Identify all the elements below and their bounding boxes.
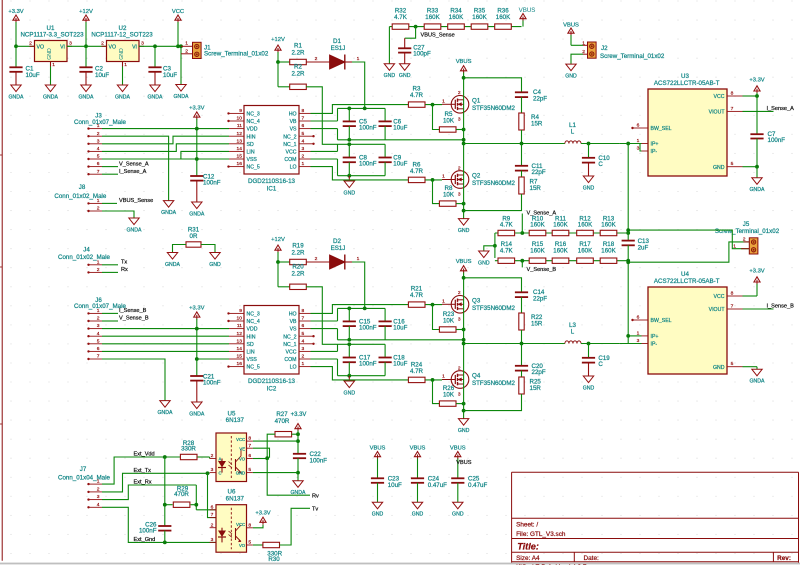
svg-text:VO: VO	[239, 456, 246, 461]
svg-text:GNDA: GNDA	[750, 187, 766, 193]
svg-text:IP+: IP+	[651, 334, 659, 340]
svg-text:GNDA: GNDA	[174, 94, 190, 100]
svg-text:Sheet: /: Sheet: /	[516, 522, 538, 529]
svg-text:160K: 160K	[449, 14, 464, 21]
svg-text:Ext_Rx: Ext_Rx	[134, 480, 152, 486]
svg-text:NC_4: NC_4	[247, 319, 260, 325]
svg-text:2: 2	[458, 290, 461, 296]
svg-text:GND: GND	[372, 512, 384, 518]
svg-text:NC_1: NC_1	[283, 142, 296, 148]
svg-text:DGD2110S16-13: DGD2110S16-13	[248, 178, 296, 185]
svg-text:HO: HO	[289, 112, 297, 118]
svg-text:GND: GND	[478, 260, 490, 266]
svg-text:Screw_Terminal_01x02: Screw_Terminal_01x02	[715, 228, 780, 235]
svg-text:NCP1117-12_SOT223: NCP1117-12_SOT223	[91, 32, 153, 39]
svg-text:V_Sense_A: V_Sense_A	[119, 161, 149, 167]
svg-text:1: 1	[302, 161, 305, 167]
svg-text:VBUS_Sense: VBUS_Sense	[421, 32, 455, 38]
svg-text:GNDA: GNDA	[127, 227, 143, 233]
svg-text:3: 3	[302, 346, 305, 352]
svg-text:9: 9	[239, 308, 242, 314]
svg-text:Ext_Tx: Ext_Tx	[134, 468, 152, 474]
svg-text:Screw_Terminal_01x02: Screw_Terminal_01x02	[204, 51, 269, 58]
svg-text:VE: VE	[239, 446, 245, 451]
svg-text:Rev:: Rev:	[777, 555, 791, 562]
svg-text:2: 2	[302, 154, 305, 160]
svg-text:12: 12	[237, 331, 243, 337]
svg-text:VCC: VCC	[172, 9, 184, 15]
svg-text:File: GTL_V3.sch: File: GTL_V3.sch	[516, 531, 566, 538]
svg-text:4.7R: 4.7R	[410, 168, 424, 175]
svg-text:7: 7	[731, 304, 734, 310]
svg-text:1: 1	[97, 259, 100, 265]
svg-text:6: 6	[211, 504, 214, 510]
svg-text:100pF: 100pF	[413, 50, 431, 57]
svg-text:160K: 160K	[578, 222, 593, 229]
svg-text:100nF: 100nF	[359, 361, 377, 368]
svg-text:GNDA: GNDA	[43, 94, 59, 100]
svg-text:4: 4	[97, 146, 100, 152]
svg-text:4.7K: 4.7K	[500, 222, 514, 229]
svg-text:15R: 15R	[530, 385, 542, 392]
svg-text:10uF: 10uF	[393, 125, 407, 132]
svg-text:5: 5	[302, 131, 305, 137]
svg-text:U6: U6	[228, 489, 236, 496]
svg-text:15R: 15R	[531, 120, 543, 127]
svg-text:LIN: LIN	[247, 150, 255, 156]
svg-text:2: 2	[315, 56, 318, 62]
svg-text:+12V: +12V	[271, 37, 285, 43]
svg-text:VIOUT: VIOUT	[709, 110, 726, 116]
svg-text:2: 2	[458, 165, 461, 171]
svg-text:VCC: VCC	[236, 522, 245, 527]
svg-text:LO: LO	[290, 165, 297, 171]
svg-text:14: 14	[237, 346, 243, 352]
svg-text:100nF: 100nF	[310, 458, 328, 465]
svg-text:VSS: VSS	[247, 157, 258, 163]
svg-text:10: 10	[237, 316, 243, 322]
svg-text:Size: A4: Size: A4	[516, 555, 540, 562]
svg-text:2: 2	[458, 90, 461, 96]
svg-text:3: 3	[211, 537, 214, 543]
svg-text:10K: 10K	[443, 118, 455, 125]
svg-text:4: 4	[97, 502, 100, 508]
svg-text:NC_5: NC_5	[247, 365, 260, 371]
svg-text:J5: J5	[743, 221, 750, 228]
svg-text:GND: GND	[412, 512, 424, 518]
svg-text:9: 9	[239, 108, 242, 114]
svg-text:VCC: VCC	[714, 294, 725, 300]
svg-text:330R: 330R	[181, 446, 196, 453]
svg-text:10K: 10K	[443, 192, 455, 199]
svg-text:1: 1	[97, 198, 100, 204]
svg-text:IP-: IP-	[651, 342, 658, 348]
svg-text:22pF: 22pF	[533, 296, 547, 303]
svg-text:I_Sense_B: I_Sense_B	[767, 304, 795, 310]
svg-text:VBUS: VBUS	[456, 259, 472, 265]
svg-text:160K: 160K	[578, 247, 593, 254]
svg-text:Title:: Title:	[517, 541, 539, 551]
svg-text:2: 2	[458, 365, 461, 371]
svg-text:GNDA: GNDA	[115, 94, 131, 100]
svg-text:NC_3: NC_3	[247, 312, 260, 318]
svg-text:NC_2: NC_2	[283, 134, 296, 140]
svg-text:VBUS: VBUS	[370, 445, 386, 451]
svg-text:470R: 470R	[275, 418, 290, 425]
svg-text:0.47uF: 0.47uF	[428, 482, 447, 489]
svg-text:+12V: +12V	[271, 237, 285, 243]
svg-text:2: 2	[97, 206, 100, 212]
svg-text:IC1: IC1	[267, 186, 277, 193]
svg-text:2: 2	[185, 48, 188, 54]
svg-text:3: 3	[458, 392, 461, 398]
svg-text:1: 1	[97, 479, 100, 485]
svg-text:5: 5	[248, 540, 251, 546]
svg-text:R20: R20	[292, 263, 304, 270]
svg-text:15: 15	[237, 154, 243, 160]
svg-text:1: 1	[185, 41, 188, 47]
svg-text:COM: COM	[284, 357, 296, 363]
svg-text:GND: GND	[119, 48, 125, 60]
svg-text:VBUS: VBUS	[410, 445, 426, 451]
svg-text:Ext_Vdd: Ext_Vdd	[134, 452, 155, 458]
svg-text:10uF: 10uF	[26, 72, 40, 79]
svg-text:SD: SD	[247, 342, 254, 348]
svg-text:GND: GND	[713, 365, 725, 371]
svg-text:VI: VI	[60, 45, 65, 51]
svg-text:GND: GND	[452, 512, 464, 518]
svg-text:GNDA: GNDA	[161, 210, 177, 216]
svg-text:VB: VB	[290, 119, 297, 125]
svg-text:1: 1	[97, 308, 100, 314]
svg-text:SD: SD	[247, 142, 254, 148]
svg-text:16: 16	[237, 361, 243, 367]
svg-text:1: 1	[52, 62, 55, 68]
svg-text:4.7K: 4.7K	[500, 247, 514, 254]
svg-text:GND: GND	[209, 262, 221, 268]
svg-text:IP+: IP+	[651, 142, 659, 148]
svg-text:14: 14	[237, 146, 243, 152]
svg-text:2.2R: 2.2R	[291, 271, 305, 278]
svg-text:GND: GND	[713, 165, 725, 171]
svg-text:J8: J8	[79, 184, 86, 191]
svg-text:6: 6	[302, 323, 305, 329]
svg-text:5: 5	[302, 331, 305, 337]
svg-text:+3.3V: +3.3V	[189, 105, 204, 111]
svg-text:6N137: 6N137	[226, 496, 245, 503]
svg-text:8: 8	[302, 308, 305, 314]
svg-text:1: 1	[357, 256, 360, 262]
svg-text:0R: 0R	[190, 233, 198, 240]
svg-text:ES1J: ES1J	[331, 45, 346, 52]
svg-text:Conn_01x02_Male: Conn_01x02_Male	[58, 254, 111, 261]
svg-text:GND: GND	[583, 185, 595, 191]
svg-text:V_Sense_A: V_Sense_A	[527, 211, 557, 217]
svg-text:GNDA: GNDA	[750, 379, 766, 385]
svg-text:NCP1117-3.3_SOT223: NCP1117-3.3_SOT223	[20, 32, 84, 39]
svg-text:11: 11	[237, 323, 242, 329]
svg-text:160K: 160K	[553, 247, 568, 254]
svg-text:+3.3V: +3.3V	[8, 9, 23, 15]
svg-text:7: 7	[97, 169, 100, 175]
svg-text:Tx: Tx	[121, 260, 127, 266]
svg-text:C: C	[598, 161, 603, 168]
svg-text:R30: R30	[268, 556, 280, 563]
svg-text:1: 1	[442, 174, 445, 180]
svg-text:GND: GND	[344, 190, 356, 196]
svg-text:160K: 160K	[601, 222, 616, 229]
svg-text:+12V: +12V	[79, 9, 93, 15]
svg-text:100nF: 100nF	[768, 137, 786, 144]
svg-text:1: 1	[302, 361, 305, 367]
svg-text:1: 1	[97, 123, 100, 129]
svg-text:IC2: IC2	[267, 386, 277, 393]
svg-text:10uF: 10uF	[388, 482, 402, 489]
svg-text:11: 11	[237, 123, 242, 129]
svg-text:3: 3	[458, 316, 461, 322]
svg-text:6: 6	[97, 161, 100, 167]
svg-text:V_Sense_B: V_Sense_B	[119, 316, 149, 322]
svg-text:22pF: 22pF	[532, 169, 546, 176]
svg-text:VBUS: VBUS	[450, 445, 466, 451]
svg-text:A: A	[219, 457, 222, 462]
svg-text:1: 1	[733, 244, 736, 250]
svg-text:IP-: IP-	[651, 149, 658, 155]
svg-text:2uF: 2uF	[638, 245, 649, 252]
svg-text:10uF: 10uF	[95, 72, 109, 79]
svg-text:6N137: 6N137	[226, 417, 245, 424]
svg-text:+3.3V: +3.3V	[189, 305, 204, 311]
svg-text:VB: VB	[290, 319, 297, 325]
svg-text:GND: GND	[583, 385, 595, 391]
svg-text:100nF: 100nF	[359, 125, 377, 132]
svg-text:160K: 160K	[425, 14, 440, 21]
svg-text:NC_5: NC_5	[247, 165, 260, 171]
svg-text:NC_1: NC_1	[283, 342, 296, 348]
svg-text:12: 12	[237, 131, 243, 137]
svg-text:GND: GND	[458, 228, 470, 234]
svg-text:7: 7	[302, 316, 305, 322]
svg-text:3: 3	[97, 138, 100, 144]
svg-text:GND: GND	[565, 74, 577, 80]
svg-text:J4: J4	[83, 247, 90, 254]
svg-text:5: 5	[97, 338, 100, 344]
svg-text:LIN: LIN	[247, 350, 255, 356]
svg-text:15R: 15R	[530, 185, 542, 192]
svg-text:10K: 10K	[443, 318, 455, 325]
svg-text:10K: 10K	[443, 392, 455, 399]
svg-text:VBUS: VBUS	[456, 460, 472, 466]
svg-text:NC_3: NC_3	[247, 112, 260, 118]
svg-text:4.7R: 4.7R	[410, 368, 424, 375]
svg-text:2: 2	[97, 487, 100, 493]
svg-text:Rv: Rv	[312, 493, 319, 499]
svg-text:GNDA: GNDA	[9, 94, 25, 100]
svg-text:HO: HO	[289, 312, 297, 318]
svg-text:I_Sense_A: I_Sense_A	[119, 169, 147, 175]
svg-text:Conn_01x07_Male: Conn_01x07_Male	[74, 119, 127, 126]
svg-text:160K: 160K	[472, 14, 487, 21]
svg-text:1: 1	[124, 62, 127, 68]
svg-text:C: C	[219, 471, 222, 476]
svg-text:VDD: VDD	[247, 327, 258, 333]
svg-text:2: 2	[211, 453, 214, 459]
svg-text:1: 1	[582, 41, 585, 47]
svg-text:L: L	[571, 328, 575, 335]
svg-text:GNDA: GNDA	[158, 410, 174, 416]
svg-text:8: 8	[248, 436, 251, 442]
svg-text:L: L	[571, 128, 575, 135]
svg-text:1: 1	[442, 99, 445, 105]
svg-text:VCC: VCC	[286, 350, 297, 356]
svg-text:1: 1	[442, 374, 445, 380]
svg-text:3: 3	[637, 146, 640, 152]
svg-text:ACS722LLCTR-05AB-T: ACS722LLCTR-05AB-T	[654, 278, 720, 285]
svg-text:15R: 15R	[531, 320, 543, 327]
svg-text:VBUS: VBUS	[456, 59, 472, 65]
svg-text:100nF: 100nF	[359, 161, 377, 168]
svg-text:470R: 470R	[174, 491, 189, 498]
svg-text:22pF: 22pF	[532, 369, 546, 376]
svg-text:2: 2	[97, 316, 100, 322]
svg-text:GND: GND	[458, 428, 470, 434]
svg-text:1: 1	[357, 56, 360, 62]
svg-text:4: 4	[97, 331, 100, 337]
svg-text:5: 5	[97, 154, 100, 160]
svg-text:100nF: 100nF	[359, 325, 377, 332]
svg-text:5: 5	[248, 467, 251, 473]
svg-text:STF35N60DM2: STF35N60DM2	[472, 305, 516, 312]
svg-text:GND: GND	[399, 73, 411, 79]
svg-text:+3.3V: +3.3V	[291, 412, 307, 418]
svg-text:8: 8	[731, 291, 734, 297]
svg-text:J2: J2	[601, 45, 608, 52]
svg-text:Q4: Q4	[472, 373, 481, 380]
svg-text:I_Sense_A: I_Sense_A	[767, 106, 795, 112]
svg-text:10uF: 10uF	[393, 161, 407, 168]
svg-text:Tv: Tv	[312, 507, 318, 513]
svg-text:+3.3V: +3.3V	[255, 510, 270, 516]
svg-text:4.7R: 4.7R	[410, 292, 424, 299]
svg-text:J7: J7	[80, 466, 87, 473]
svg-text:0.47uF: 0.47uF	[468, 482, 487, 489]
svg-text:22pF: 22pF	[533, 96, 547, 103]
svg-text:4: 4	[302, 338, 305, 344]
svg-text:10uF: 10uF	[393, 325, 407, 332]
svg-text:NC_2: NC_2	[283, 334, 296, 340]
svg-text:Conn_01x04_Male: Conn_01x04_Male	[58, 474, 111, 481]
svg-text:R2: R2	[294, 63, 302, 70]
svg-text:BW_SEL: BW_SEL	[651, 318, 672, 324]
svg-text:GNDA: GNDA	[148, 94, 164, 100]
svg-text:6: 6	[302, 123, 305, 129]
svg-text:VIOUT: VIOUT	[709, 307, 726, 313]
svg-text:160K: 160K	[530, 247, 545, 254]
svg-text:2: 2	[211, 522, 214, 528]
svg-text:160K: 160K	[601, 247, 616, 254]
svg-text:GNDA: GNDA	[79, 94, 95, 100]
svg-text:3: 3	[302, 146, 305, 152]
svg-text:LO: LO	[290, 365, 297, 371]
svg-text:3: 3	[211, 467, 214, 473]
svg-text:5: 5	[731, 361, 734, 367]
svg-text:2: 2	[97, 131, 100, 137]
svg-text:5: 5	[731, 161, 734, 167]
svg-text:15: 15	[237, 354, 243, 360]
svg-text:Screw_Terminal_01x02: Screw_Terminal_01x02	[600, 53, 665, 60]
svg-text:100nF: 100nF	[139, 528, 157, 535]
svg-text:VDD: VDD	[247, 127, 258, 133]
svg-text:160K: 160K	[553, 222, 568, 229]
svg-text:ES1J: ES1J	[331, 245, 346, 252]
svg-text:8: 8	[302, 108, 305, 114]
svg-text:VBUS_Sense: VBUS_Sense	[119, 198, 153, 204]
svg-text:160K: 160K	[530, 222, 545, 229]
svg-text:HIN: HIN	[247, 334, 256, 340]
svg-text:Rx: Rx	[121, 267, 128, 273]
svg-text:VO: VO	[109, 45, 117, 51]
svg-text:COM: COM	[284, 157, 296, 163]
svg-text:VSS: VSS	[247, 357, 258, 363]
svg-text:7: 7	[97, 354, 100, 360]
svg-text:2: 2	[97, 267, 100, 273]
svg-text:BW_SEL: BW_SEL	[651, 126, 672, 132]
svg-text:3: 3	[458, 116, 461, 122]
svg-text:7: 7	[248, 443, 251, 449]
svg-text:Ext_Gnd: Ext_Gnd	[134, 537, 156, 543]
svg-text:2.2R: 2.2R	[291, 71, 305, 78]
svg-text:VS: VS	[290, 327, 297, 333]
svg-text:4: 4	[302, 138, 305, 144]
svg-text:GND: GND	[384, 73, 396, 79]
svg-text:GND: GND	[47, 48, 53, 60]
svg-text:STF35N60DM2: STF35N60DM2	[472, 380, 516, 387]
svg-text:13: 13	[237, 138, 243, 144]
svg-text:VCC: VCC	[286, 150, 297, 156]
svg-text:Q1: Q1	[472, 98, 481, 105]
svg-text:16: 16	[237, 161, 243, 167]
svg-text:13: 13	[237, 338, 243, 344]
svg-text:1: 1	[442, 299, 445, 305]
svg-text:10: 10	[237, 116, 243, 122]
svg-text:3: 3	[97, 323, 100, 329]
svg-text:8: 8	[248, 522, 251, 528]
svg-text:4.7K: 4.7K	[394, 14, 408, 21]
svg-text:6: 6	[637, 123, 640, 129]
svg-text:STF35N60DM2: STF35N60DM2	[472, 105, 516, 112]
svg-text:2.2R: 2.2R	[291, 249, 305, 256]
svg-text:VS: VS	[290, 127, 297, 133]
svg-text:VBUS: VBUS	[519, 7, 536, 14]
svg-text:Q3: Q3	[472, 298, 481, 305]
svg-text:8: 8	[731, 91, 734, 97]
svg-text:10uF: 10uF	[393, 361, 407, 368]
svg-text:6: 6	[97, 346, 100, 352]
svg-text:100nF: 100nF	[203, 180, 221, 187]
svg-text:10uF: 10uF	[163, 72, 177, 79]
svg-text:C: C	[598, 361, 603, 368]
svg-text:ACS722LLCTR-05AB-T: ACS722LLCTR-05AB-T	[654, 80, 720, 87]
svg-text:+3.3V: +3.3V	[749, 269, 764, 275]
svg-text:VO: VO	[239, 543, 246, 548]
svg-text:GNDA: GNDA	[189, 411, 205, 417]
svg-text:VI: VI	[132, 45, 137, 51]
svg-text:Q2: Q2	[472, 173, 481, 180]
svg-text:HIN: HIN	[247, 134, 256, 140]
svg-text:GND: GND	[344, 390, 356, 396]
svg-text:NC_4: NC_4	[247, 119, 260, 125]
svg-text:6: 6	[248, 453, 251, 459]
